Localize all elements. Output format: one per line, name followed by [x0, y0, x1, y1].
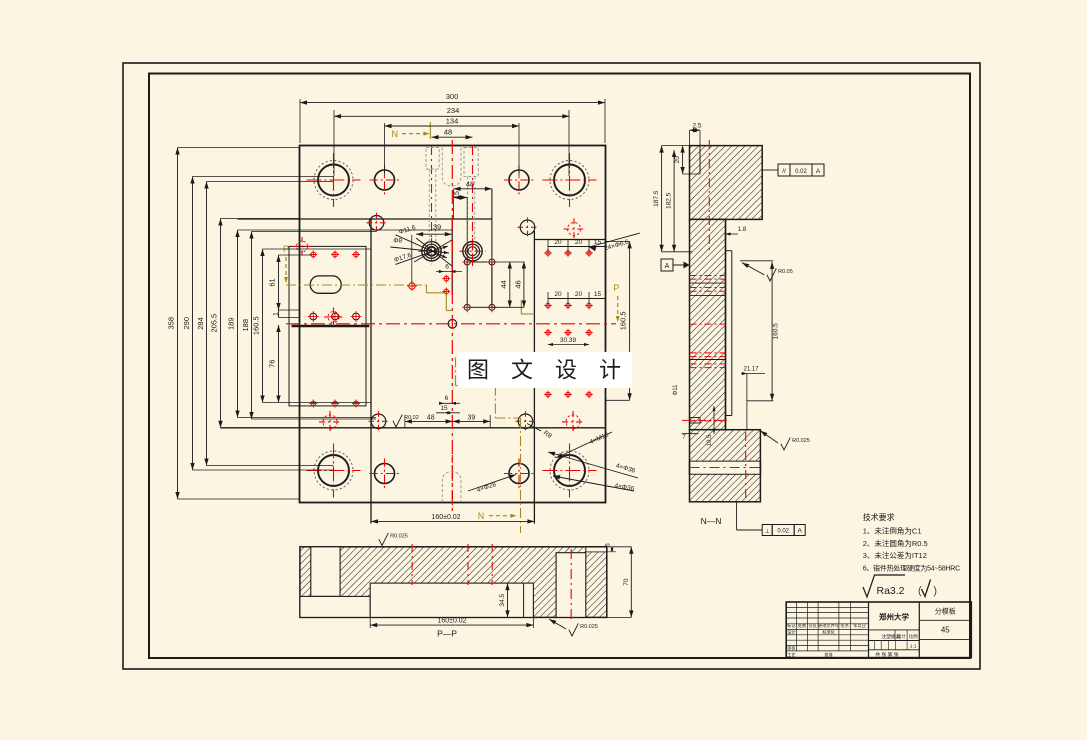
leader 4xD28: [468, 475, 516, 492]
svg-text:30.39: 30.39: [560, 337, 577, 344]
guide hole TR: [554, 165, 585, 196]
sprue hole set 1: [422, 242, 441, 261]
svg-text:15: 15: [594, 239, 602, 246]
svg-text:10.5: 10.5: [707, 434, 713, 446]
PP dim 70: [630, 547, 632, 618]
hidden hole a: [297, 241, 308, 252]
pin dot R12: [587, 303, 591, 307]
ghost screw right: [464, 148, 478, 177]
dim 48 mid: [454, 188, 492, 190]
return pin hole bot-left: [375, 464, 395, 484]
NN red stripes: [690, 275, 726, 277]
svg-text:2、未注圆角为R0.5: 2、未注圆角为R0.5: [863, 538, 928, 548]
pin dot R10: [546, 303, 550, 307]
band bottom edge: [221, 427, 606, 429]
pin dot R32: [587, 392, 591, 396]
pin dot c1: [444, 276, 449, 281]
svg-text:20: 20: [554, 291, 562, 298]
svg-text:70: 70: [623, 578, 630, 586]
svg-text:44: 44: [499, 280, 508, 288]
NN dim 160.5: [771, 262, 773, 401]
svg-text:160.5: 160.5: [773, 323, 780, 340]
return pin hole top-left: [375, 170, 395, 190]
dim 300: [300, 102, 605, 104]
svg-text:61: 61: [268, 278, 277, 286]
left pocket inner rect: [289, 246, 366, 406]
svg-text:0.02: 0.02: [795, 169, 807, 175]
svg-text:N: N: [478, 511, 485, 521]
NN red axis bottom: [745, 432, 747, 500]
svg-text:分模板: 分模板: [935, 607, 956, 616]
pin dot R11: [566, 303, 570, 307]
svg-text:6、锻件热处理硬度为54~58HRC: 6、锻件热处理硬度为54~58HRC: [863, 564, 960, 573]
pin dot L00: [311, 252, 316, 257]
dim 160 bottom: [371, 520, 534, 522]
svg-text:15: 15: [454, 191, 461, 199]
pin dot L22: [354, 401, 359, 406]
svg-text:1、未注倒角为C1: 1、未注倒角为C1: [863, 526, 922, 536]
svg-text:R0.025: R0.025: [390, 533, 408, 539]
dim 205.5: [220, 219, 222, 428]
svg-text:P—P: P—P: [437, 629, 457, 639]
svg-text:182.5: 182.5: [666, 192, 673, 209]
dim 160.5 left: [262, 249, 264, 403]
svg-text:R0.02: R0.02: [404, 415, 419, 421]
svg-text:48: 48: [466, 180, 474, 189]
screw rect connectors: [492, 261, 524, 263]
svg-text:A: A: [665, 263, 670, 270]
NN black steps: [690, 282, 726, 284]
pin dot L20: [311, 401, 316, 406]
pin dot L01: [333, 252, 338, 257]
svg-text:Φ8: Φ8: [393, 238, 402, 245]
svg-text:Ra3.2: Ra3.2: [877, 585, 905, 597]
ghost screw left: [426, 148, 439, 170]
svg-text:1.8: 1.8: [738, 227, 747, 233]
svg-text:290: 290: [182, 317, 191, 330]
dim 46: [523, 262, 525, 308]
hidden hole d: [323, 415, 337, 429]
pin dot L11: [332, 313, 339, 320]
svg-text:76: 76: [268, 360, 277, 368]
ghost sprue bottom: [442, 472, 461, 502]
dim 188: [251, 232, 253, 420]
svg-text:图 文 设 计: 图 文 设 计: [467, 358, 621, 383]
svg-text:审核: 审核: [787, 645, 796, 652]
svg-text:189: 189: [227, 317, 236, 330]
PP dim 160: [370, 624, 533, 626]
return pin hole top-right: [509, 170, 529, 190]
NN bottom block: [690, 430, 761, 502]
NN narrow column: [690, 219, 726, 429]
svg-text:比例: 比例: [909, 633, 918, 640]
pocket right wall: [533, 231, 535, 524]
svg-text:20: 20: [575, 291, 583, 298]
leader 4xM16: [556, 432, 612, 458]
dim 134: [385, 125, 520, 127]
svg-text:N—N: N—N: [701, 516, 722, 526]
leader R8: [527, 424, 541, 432]
svg-text:R0.05: R0.05: [778, 269, 793, 275]
pin dot R30: [546, 392, 550, 396]
dim 48 top: [432, 136, 473, 138]
svg-text:358: 358: [167, 317, 176, 330]
pin dot L10: [310, 313, 317, 320]
ghost sprue bush: [442, 148, 461, 187]
svg-text:20: 20: [554, 239, 562, 246]
svg-text:A: A: [798, 528, 803, 535]
svg-text:批准: 批准: [824, 651, 832, 658]
NN dim 187.5: [661, 146, 663, 252]
svg-text:N: N: [391, 129, 398, 139]
PP center pocket: [370, 583, 533, 617]
leader lines extra: [416, 238, 452, 266]
pocket corner circle TL: [369, 216, 384, 231]
sprue hole set 2: [463, 242, 482, 261]
pin dot R01: [566, 251, 570, 255]
PP dim 34.5: [507, 583, 509, 617]
pocket top edge left: [238, 218, 492, 220]
NN dim 182.5: [673, 150, 675, 252]
svg-text:15: 15: [440, 405, 448, 412]
dim 284: [206, 182, 208, 466]
svg-text:年月日: 年月日: [853, 622, 866, 629]
plate outline: [300, 146, 606, 503]
pin dot L12: [353, 313, 360, 320]
dim 76: [278, 325, 280, 403]
svg-text:205.5: 205.5: [210, 314, 219, 333]
pin dot R02: [587, 251, 591, 255]
svg-text:46: 46: [514, 280, 523, 288]
center point circle: [448, 320, 457, 329]
screw rect: [467, 262, 492, 307]
NN bottom white band: [690, 461, 759, 474]
NN rough bottom: [760, 431, 778, 443]
pocket left wall: [370, 219, 372, 524]
dim 290: [192, 177, 194, 471]
pin dot L21: [333, 401, 338, 406]
band top edge right: [535, 239, 606, 241]
svg-text:处数: 处数: [798, 622, 807, 629]
svg-text:共 张 第 张: 共 张 第 张: [875, 651, 898, 658]
pin dot gold: [409, 283, 415, 289]
pocket corner circle BL: [371, 414, 386, 429]
svg-text:设计: 设计: [897, 633, 906, 640]
NN phi11 hole: [690, 418, 700, 424]
PP rough bottom: [549, 619, 566, 629]
hidden hole e: [566, 415, 580, 429]
svg-text:160.5: 160.5: [252, 316, 261, 335]
NN perp callout: [762, 525, 772, 536]
cut edge bold: [292, 325, 370, 328]
ext lines top dims: [299, 99, 301, 143]
svg-text:工艺: 工艺: [787, 652, 795, 657]
svg-text:3、未注公差为IT12: 3、未注公差为IT12: [863, 550, 927, 560]
svg-text:34.5: 34.5: [499, 594, 506, 607]
section N arrow top: [402, 133, 426, 135]
svg-text:技术要求: 技术要求: [863, 512, 895, 522]
NN dim connectors: [662, 145, 690, 147]
NN datum A: [661, 259, 673, 271]
PP rough top: [379, 533, 388, 546]
PP red axes: [411, 544, 413, 585]
dim 358: [177, 148, 179, 500]
main vertical centerline: [451, 140, 453, 512]
svg-text:48: 48: [427, 414, 435, 421]
svg-text:300: 300: [446, 92, 459, 101]
svg-text:1:1: 1:1: [910, 644, 917, 650]
svg-text:R0.025: R0.025: [580, 624, 598, 630]
section N path bottom: [455, 357, 457, 385]
hidden hole c: [328, 312, 339, 323]
NN dim 20: [682, 146, 684, 174]
svg-text:39: 39: [468, 414, 476, 421]
svg-text:标准化: 标准化: [822, 629, 835, 636]
guide hole BR: [554, 455, 585, 486]
Ra mark: [863, 575, 905, 597]
inner border frame: [149, 74, 970, 659]
svg-text:P: P: [613, 283, 619, 293]
screw rect corner 1: [489, 259, 495, 265]
NN step line: [699, 146, 701, 174]
NN parallel callout: [778, 164, 790, 176]
svg-text:标记: 标记: [787, 622, 796, 629]
right band dims rowA: [548, 246, 606, 248]
dim 48-39 bottom: [405, 420, 490, 422]
svg-text:分区: 分区: [809, 622, 817, 629]
pin dot R21: [566, 330, 570, 334]
PP pocket inner line: [523, 583, 525, 617]
svg-text:）: ）: [933, 585, 944, 598]
svg-text:R0.025: R0.025: [792, 438, 810, 444]
svg-text:A: A: [816, 168, 821, 175]
svg-text:39: 39: [433, 222, 441, 231]
dim 234: [334, 115, 569, 117]
svg-text:160.5: 160.5: [619, 311, 628, 330]
section P path: [286, 284, 426, 286]
NN top block: [690, 146, 763, 220]
svg-text:0.02: 0.02: [777, 529, 789, 535]
right band dims rowB: [548, 298, 606, 300]
PP dim 5: [611, 547, 613, 552]
section P path right: [520, 300, 522, 314]
red axis 48-right: [472, 146, 474, 266]
pocket corner circle BR: [518, 414, 533, 429]
svg-text:284: 284: [196, 317, 205, 330]
PP left slot: [311, 547, 340, 597]
section P arrow left: [285, 257, 287, 279]
pin dot R22: [587, 330, 591, 334]
guide hole TL: [318, 165, 349, 196]
NN dim 10.5: [713, 406, 715, 434]
dim 44: [509, 262, 511, 308]
leader 4xD36b: [553, 476, 634, 491]
screw rect corner 3: [489, 304, 495, 310]
svg-text:15: 15: [594, 291, 602, 298]
svg-text:Φ11: Φ11: [673, 384, 679, 396]
NN red axis top: [708, 140, 710, 250]
screw rect corner 0: [464, 259, 470, 265]
pocket corner circle TR: [520, 220, 535, 235]
leader 4xD36a: [548, 452, 638, 478]
svg-text:45: 45: [941, 626, 950, 635]
dim 15 mid: [454, 197, 468, 199]
pin dot L02: [354, 252, 359, 257]
dim 189: [237, 230, 239, 418]
dim 61: [278, 255, 280, 310]
svg-text:20: 20: [575, 239, 583, 246]
guide hole BL: [318, 455, 349, 486]
svg-text:160±0.02: 160±0.02: [431, 514, 460, 521]
PP right slot: [556, 553, 586, 618]
NN rough mid: [742, 263, 764, 275]
watermark box: [458, 352, 632, 388]
svg-text:（: （: [911, 585, 922, 598]
pin dot R20: [546, 330, 550, 334]
NN cavity wall: [725, 219, 727, 429]
return pin hole bot-right: [509, 464, 529, 484]
rough flag plate: [393, 414, 402, 427]
hidden hole b: [568, 223, 581, 236]
svg-text:134: 134: [446, 117, 459, 126]
svg-text:48: 48: [444, 128, 452, 137]
svg-text:188: 188: [241, 319, 250, 332]
svg-text:2.5: 2.5: [692, 123, 701, 130]
slot edge vertical: [451, 219, 453, 295]
svg-text:6: 6: [445, 264, 449, 271]
title block grid: [786, 602, 971, 658]
svg-text:187.5: 187.5: [653, 190, 660, 207]
svg-text:⊥: ⊥: [765, 528, 770, 535]
svg-text:160±0.02: 160±0.02: [437, 618, 466, 625]
PP bottom-left strip: [300, 596, 370, 617]
svg-text:21.17: 21.17: [743, 367, 759, 373]
PP body: [300, 547, 607, 618]
svg-text:签名: 签名: [841, 622, 849, 629]
svg-text:设计: 设计: [787, 629, 795, 636]
center vertical line: [491, 189, 493, 307]
screw rect corner 2: [464, 304, 470, 310]
dim 39: [416, 233, 452, 235]
PP right step: [586, 551, 607, 553]
dim 160.5 right: [629, 241, 631, 400]
red axis 48-left: [431, 146, 433, 240]
pin dot R31: [566, 392, 570, 396]
outer border frame: [123, 63, 980, 669]
left connectors: [178, 147, 301, 149]
section P arrow right: [617, 296, 619, 318]
pin dot c2: [444, 289, 449, 294]
pin dot R00: [546, 251, 550, 255]
svg-text:更改文件号: 更改文件号: [818, 622, 839, 629]
svg-text:234: 234: [447, 106, 460, 115]
svg-text:郑州大学: 郑州大学: [879, 612, 909, 622]
kidney slot: [310, 276, 341, 293]
NN dim 2.5: [690, 129, 701, 131]
section N arrow bottom: [489, 515, 513, 517]
main horizontal centerline: [286, 323, 616, 325]
svg-text:6: 6: [445, 395, 449, 402]
svg-text://: //: [782, 168, 786, 175]
